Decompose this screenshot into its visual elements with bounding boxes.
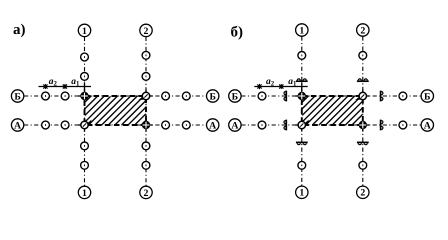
axis label circle 1 top (panel a) bbox=[78, 24, 90, 37]
permanent fixing sign below axis1-А (panel b) bbox=[296, 142, 308, 145]
svg-text:а): а) bbox=[13, 22, 26, 38]
axis intersection mark 1-А (panel b) bbox=[295, 118, 308, 131]
permanent fixing sign right on axis А (panel b) bbox=[381, 120, 384, 131]
axis line А horizontal (panel b) bbox=[241, 124, 421, 126]
hatch terminal wedge at corner 1-А (panel b) bbox=[304, 120, 309, 125]
svg-text:1: 1 bbox=[82, 26, 87, 37]
svg-text:Б: Б bbox=[14, 91, 20, 102]
axis intersection mark 1-Б (panel a) bbox=[78, 89, 91, 102]
svg-text:2: 2 bbox=[144, 188, 149, 199]
svg-text:2: 2 bbox=[144, 26, 149, 37]
dimension tick at inner point (panel a) bbox=[63, 84, 67, 89]
dimension line a2/a1 (panel a) bbox=[39, 86, 92, 88]
axis point circle 1-top inner (panel a) bbox=[81, 73, 89, 81]
axis point circle 1-top outer (panel a) bbox=[81, 53, 89, 61]
axis label circle 2 bottom (panel a) bbox=[140, 186, 152, 199]
axis label circle 2 bottom (panel b) bbox=[357, 186, 369, 199]
axis intersection mark 2-А (panel b) bbox=[356, 118, 369, 131]
axis line А horizontal (panel a) bbox=[24, 124, 206, 126]
hatch terminal wedge at corner 1-А (panel a) bbox=[87, 120, 92, 125]
svg-text:1: 1 bbox=[82, 188, 87, 199]
axis point circle 1-bottom outer (panel a) bbox=[81, 161, 89, 169]
axis point circle A-left outer (panel b) bbox=[258, 121, 266, 129]
axis point circle 2-top outer (panel a) bbox=[142, 51, 150, 59]
axis point circle 2-bottom outer (panel b) bbox=[359, 161, 367, 169]
axis point circle 2-top inner (panel a) bbox=[142, 73, 150, 81]
permanent fixing sign left on axis Б (panel b) bbox=[283, 91, 286, 102]
hatching of building outline (A) bbox=[56, 96, 171, 125]
axis label circle А right (panel a) bbox=[207, 119, 219, 132]
building outline dashed rectangle (A) bbox=[85, 96, 147, 125]
axis label circle 1 top (panel b) bbox=[296, 24, 308, 37]
axis label circle 1 bottom (panel a) bbox=[78, 186, 90, 199]
axis label circle 2 top (panel a) bbox=[140, 24, 152, 37]
svg-text:2: 2 bbox=[360, 25, 365, 36]
axis point circle A-right outer (panel a) bbox=[182, 121, 190, 129]
svg-text:Б: Б bbox=[424, 91, 430, 102]
axis point circle 2-bottom outer (panel a) bbox=[142, 161, 150, 169]
axis point circle B-left outer (panel b) bbox=[258, 92, 266, 100]
axis line 2 vertical (panel a) bbox=[145, 37, 147, 186]
axis point circle A-left inner (panel a) bbox=[61, 121, 69, 129]
permanent fixing sign above axis2-Б (panel b) bbox=[357, 78, 369, 81]
svg-text:1: 1 bbox=[299, 25, 304, 36]
dimension tick at axis 1 (panel a) bbox=[84, 82, 86, 91]
axis point circle A-right inner (panel a) bbox=[162, 121, 170, 129]
svg-text:Б: Б bbox=[232, 91, 238, 102]
hatch terminal wedge at corner 2-Б (panel a) bbox=[139, 96, 145, 100]
svg-text:А: А bbox=[424, 120, 431, 131]
axis label circle 1 bottom (panel b) bbox=[296, 186, 308, 199]
dimension tick at outer point (panel a) bbox=[43, 84, 47, 89]
axis point circle 2-top outer (panel b) bbox=[359, 52, 367, 60]
axis line 1 vertical (panel a) bbox=[84, 37, 86, 186]
permanent fixing sign left on axis А (panel b) bbox=[283, 120, 286, 131]
axis label circle А right (panel b) bbox=[421, 119, 433, 132]
svg-text:А: А bbox=[209, 120, 216, 131]
dimension tick at inner point (panel b) bbox=[279, 84, 283, 89]
axis line Б horizontal (panel b) bbox=[241, 95, 421, 97]
building outline dashed rectangle (B) bbox=[302, 96, 363, 125]
dimension tick at axis 1 (panel b) bbox=[301, 82, 303, 91]
axis line 2 vertical (panel b) bbox=[362, 36, 364, 186]
permanent fixing sign right on axis Б (panel b) bbox=[381, 91, 384, 102]
axis intersection mark 1-А (panel a) bbox=[78, 118, 91, 131]
hatching of building outline (B) bbox=[273, 96, 388, 125]
hatch terminal wedge at corner 2-Б (panel b) bbox=[355, 96, 361, 100]
axis point circle 1-bottom outer (panel b) bbox=[298, 161, 306, 169]
axis label circle Б left (panel a) bbox=[11, 90, 23, 103]
axis label circle Б left (panel b) bbox=[229, 90, 241, 103]
axis point circle 2-bottom inner (panel a) bbox=[142, 142, 150, 150]
dimension line a2/a1 (panel b) bbox=[254, 86, 307, 88]
axis point circle B-right outer (panel b) bbox=[399, 92, 407, 100]
axis point circle 1-top outer (panel b) bbox=[298, 52, 306, 60]
axis point circle B-left inner (panel a) bbox=[61, 92, 69, 100]
permanent fixing sign below axis2-А (panel b) bbox=[357, 142, 369, 145]
axis intersection mark 1-Б (panel b) bbox=[295, 89, 308, 102]
axis point circle 1-bottom inner (panel a) bbox=[81, 142, 89, 150]
axis label circle Б right (panel b) bbox=[421, 90, 433, 103]
axis intersection mark 2-А (panel a) bbox=[139, 118, 152, 131]
svg-text:А: А bbox=[14, 120, 21, 131]
svg-text:1: 1 bbox=[299, 188, 304, 199]
svg-text:А: А bbox=[231, 120, 238, 131]
axis label circle Б right (panel a) bbox=[207, 90, 219, 103]
axis label circle 2 top (panel b) bbox=[357, 24, 369, 37]
axis point circle B-left outer (panel a) bbox=[42, 92, 50, 100]
dimension tick at outer point (panel b) bbox=[257, 84, 261, 89]
axis intersection mark 2-Б (panel b) bbox=[356, 89, 369, 102]
axis point circle A-right outer (panel b) bbox=[399, 121, 407, 129]
axis point circle B-right inner (panel a) bbox=[162, 92, 170, 100]
svg-text:б): б) bbox=[231, 25, 244, 41]
axis line Б horizontal (panel a) bbox=[24, 95, 206, 97]
svg-text:Б: Б bbox=[209, 91, 215, 102]
axis intersection mark 2-Б (panel a) bbox=[139, 89, 152, 102]
axis point circle B-right outer (panel a) bbox=[182, 92, 190, 100]
axis label circle А left (panel a) bbox=[11, 119, 23, 132]
axis point circle A-left outer (panel a) bbox=[42, 121, 50, 129]
axis line 1 vertical (panel b) bbox=[301, 36, 303, 186]
axis label circle А left (panel b) bbox=[229, 119, 241, 132]
svg-text:2: 2 bbox=[360, 188, 365, 199]
permanent fixing sign above axis1-Б (panel b) bbox=[296, 78, 308, 81]
